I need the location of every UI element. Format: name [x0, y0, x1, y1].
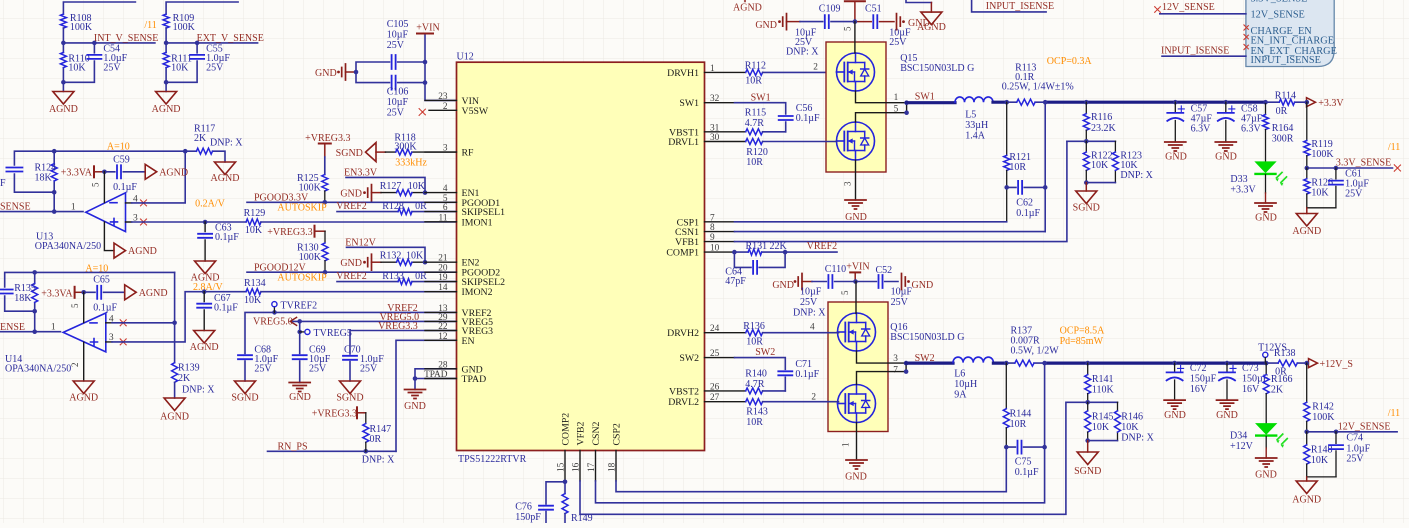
svg-text:110K: 110K [1092, 385, 1115, 396]
svg-text:R139: R139 [178, 363, 200, 374]
ground GND C57 [1165, 142, 1186, 151]
resistor R132 10K [381, 261, 425, 263]
resistor R108 100K [60, 14, 66, 28]
svg-text:+VREG3.3: +VREG3.3 [305, 133, 350, 144]
resistor R118 300K [385, 151, 456, 153]
power port +12V_S [1309, 359, 1318, 368]
resistor R113 0.1R sense [1017, 99, 1035, 105]
wire Q15 drain from +VIN [854, 22, 856, 53]
junction [61, 41, 66, 46]
svg-text:1.4A: 1.4A [965, 131, 986, 142]
Q16 low-side MOSFET [838, 385, 876, 423]
ground GND for TPAD [405, 390, 426, 399]
svg-text:SW1: SW1 [679, 98, 699, 109]
wire EXT_V_SENSE node [166, 28, 258, 91]
wire 12V_SENSE to sheet [1160, 13, 1246, 15]
svg-text:INPUT_ISENSE: INPUT_ISENSE [1251, 55, 1321, 66]
resistor R121 10R [1006, 102, 1008, 155]
svg-text:TVREG5: TVREG5 [314, 328, 352, 339]
svg-text:10K: 10K [1311, 455, 1329, 466]
junction [32, 270, 37, 275]
resistor R115 4.7R [746, 129, 763, 135]
wire 3.3V_SENSE [1307, 167, 1393, 169]
capacitor C68 1.0uF 25V [238, 355, 252, 359]
svg-text:25V: 25V [360, 364, 378, 375]
svg-text:10R: 10R [746, 157, 763, 168]
svg-text:R112: R112 [745, 61, 766, 72]
svg-text:R143: R143 [746, 407, 768, 418]
capacitor C73 150uF 16V [1226, 363, 1228, 400]
ground GND D33 [1255, 203, 1276, 212]
svg-text:AGND: AGND [1292, 226, 1321, 237]
svg-text:10K: 10K [1092, 422, 1110, 433]
svg-text:L5: L5 [965, 110, 976, 121]
wire SW2 bus thick [906, 362, 953, 365]
svg-text:1: 1 [710, 64, 715, 74]
svg-text:+12V_S: +12V_S [1320, 359, 1353, 370]
resistor R143 10R [746, 399, 763, 405]
ground GND C73 [1217, 400, 1238, 409]
capacitor C57 47uF 6.3V [1174, 102, 1176, 142]
inductor L6 10uH 9A [953, 357, 993, 363]
wire CSN2 long [596, 447, 1045, 503]
svg-text:SGND: SGND [336, 148, 363, 159]
svg-text:100K: 100K [173, 22, 196, 33]
wire C105/C106 rails [356, 34, 457, 101]
svg-text:R133: R133 [382, 271, 404, 282]
wire R122/R123 bottom rail [1086, 182, 1115, 184]
svg-text:10R: 10R [746, 417, 763, 428]
svg-text:21: 21 [438, 254, 448, 264]
wire CSP2 long [616, 447, 1006, 492]
svg-text:16: 16 [572, 462, 582, 472]
wire Q16 source to SW2 node [857, 351, 907, 385]
svg-text:DNP: X: DNP: X [1121, 433, 1154, 444]
svg-text:VREG3.3: VREG3.3 [378, 321, 418, 332]
capacitor C58 47uF 6.3V [1225, 102, 1227, 142]
svg-text:R134: R134 [244, 278, 266, 289]
wire Q15 source to SW1 node [856, 91, 907, 122]
svg-text:9A: 9A [954, 390, 967, 401]
svg-text:2K: 2K [194, 133, 207, 144]
svg-text:SGND: SGND [231, 393, 258, 404]
svg-text:AGND: AGND [733, 3, 762, 14]
svg-text:COMP1: COMP1 [666, 248, 699, 259]
svg-text:R128: R128 [382, 201, 404, 212]
wire CSN1 riser [1044, 102, 1046, 231]
svg-text:25: 25 [710, 349, 720, 359]
svg-text:+12V: +12V [1230, 441, 1254, 452]
svg-text:TVREF2: TVREF2 [281, 301, 318, 312]
resistor R140 4.7R [746, 388, 763, 394]
resistor R112 10R [746, 69, 763, 75]
svg-text:AGND: AGND [190, 342, 219, 353]
svg-text:10: 10 [710, 244, 720, 254]
svg-text:OCP=8.5A: OCP=8.5A [1060, 326, 1106, 337]
svg-text:2: 2 [813, 63, 818, 73]
testpoint TVREF2 [273, 307, 275, 313]
ground SGND for C70 [340, 381, 361, 394]
capacitor C62 0.1uF [1007, 186, 1045, 188]
testpoint TVREG5 [300, 331, 305, 333]
capacitor C54 1.0uF 25V [87, 55, 101, 59]
svg-text:3.3V_SENSE: 3.3V_SENSE [1336, 158, 1391, 169]
svg-text:INPUT_ISENSE: INPUT_ISENSE [986, 1, 1054, 12]
svg-text:10µH: 10µH [954, 379, 977, 390]
svg-text:C59: C59 [113, 155, 130, 166]
wire CSP1 [735, 221, 1007, 223]
svg-text:25V: 25V [1346, 454, 1364, 465]
svg-text:TPAD: TPAD [424, 370, 448, 380]
junction [52, 149, 57, 154]
svg-text:12V_SENSE: 12V_SENSE [1162, 2, 1215, 13]
wire VREG3 pin22 [350, 331, 457, 355]
svg-text:150µF: 150µF [1190, 374, 1217, 385]
wire VFB1 [735, 141, 1067, 241]
wire INPUT_ISENSE to sheet [1162, 55, 1246, 57]
wire U14 output SENSE [0, 331, 61, 333]
svg-text:R141: R141 [1092, 374, 1114, 385]
svg-text:0.1µF: 0.1µF [795, 369, 819, 380]
wire U14 plus input to IMON2 [112, 292, 246, 342]
svg-text:V5SW: V5SW [462, 106, 489, 117]
capacitor C52 10uF 25V [856, 281, 899, 283]
svg-text:0R: 0R [1276, 106, 1288, 117]
svg-text:AUTOSKIP: AUTOSKIP [277, 273, 327, 284]
svg-text:16V: 16V [1190, 384, 1208, 395]
svg-text:AGND: AGND [211, 173, 240, 184]
svg-text:R116: R116 [1091, 112, 1112, 123]
wire EN12V [347, 247, 426, 262]
wire VREG5 pin29 [293, 321, 457, 353]
svg-text:GND: GND [1216, 410, 1238, 421]
svg-text:+VREG3.3: +VREG3.3 [267, 227, 312, 238]
ground GND C72 [1164, 400, 1185, 409]
svg-text:19: 19 [438, 273, 448, 283]
svg-text:AGND: AGND [139, 288, 168, 299]
svg-text:AGND: AGND [1292, 495, 1321, 506]
resistor R164 300R [1265, 102, 1267, 114]
ground AGND 12V sense [1306, 477, 1308, 481]
svg-text:7: 7 [893, 366, 898, 376]
wire 12V_SENSE [1307, 431, 1397, 433]
no-ERC mark V5SW pin [419, 109, 426, 116]
svg-text:GND: GND [1215, 152, 1237, 163]
svg-text:2K: 2K [178, 373, 191, 384]
ground AGND 3.3V sense [1306, 208, 1308, 214]
svg-text:SENSE: SENSE [0, 202, 31, 213]
svg-text:GND: GND [912, 280, 934, 291]
capacitor C51 10uF 25V [855, 21, 894, 23]
svg-text:10µF: 10µF [387, 30, 409, 41]
svg-text:A=10: A=10 [85, 264, 108, 275]
svg-text:0.5W, 1/2W: 0.5W, 1/2W [1011, 346, 1060, 357]
svg-text:R140: R140 [745, 369, 767, 380]
wire U14 minus input node [112, 272, 175, 362]
wire INPUT_ISENSE top center [972, 0, 1047, 12]
svg-text:4: 4 [443, 184, 448, 194]
resistor R109 100K [163, 14, 169, 28]
svg-text:25V: 25V [309, 364, 327, 375]
svg-text:25V: 25V [254, 364, 272, 375]
svg-text:C51: C51 [865, 4, 882, 15]
wire EN3.3V [346, 177, 425, 192]
svg-text:+3.3VA: +3.3VA [61, 168, 93, 179]
wire INT_V_SENSE node [63, 28, 154, 91]
svg-text:GND: GND [1255, 470, 1277, 481]
ground GND for C69 [289, 383, 310, 392]
capacitor U14 feedback (cropped) [0, 290, 13, 294]
svg-text:1: 1 [841, 443, 851, 448]
svg-text:R144: R144 [1010, 409, 1032, 420]
transistor Q15 box [826, 42, 886, 172]
resistor R147 0R DNP [365, 413, 367, 424]
svg-text:AGND: AGND [152, 104, 181, 115]
resistor R148 10K [1306, 432, 1308, 445]
svg-text:GND: GND [315, 68, 337, 79]
wire top feed INT_V_SENSE [63, 2, 135, 14]
svg-text:25V: 25V [800, 297, 818, 308]
svg-text:C105: C105 [387, 19, 409, 30]
wire CSN1 [735, 231, 1046, 233]
svg-text:3: 3 [443, 144, 448, 154]
svg-text:AGND: AGND [69, 393, 98, 404]
wire IMON2 [261, 291, 457, 293]
capacitor C106 10uF 25V [392, 76, 396, 90]
resistor R110 10K [60, 52, 66, 67]
svg-text:12: 12 [438, 332, 448, 342]
op-amp U14 OPA340NA/250 [63, 313, 106, 352]
svg-text:10K: 10K [408, 181, 426, 192]
svg-text:150pF: 150pF [515, 512, 541, 523]
U12 left pin stubs [425, 100, 457, 378]
svg-text:/11: /11 [144, 20, 156, 31]
svg-text:BSC150N03LD G: BSC150N03LD G [900, 63, 974, 74]
svg-text:/11: /11 [1388, 142, 1400, 153]
no-ERC mark 3.3V_SENSE [1394, 165, 1400, 171]
svg-text:TPS51222RTVR: TPS51222RTVR [458, 454, 527, 465]
svg-text:DNP: X: DNP: X [1120, 170, 1153, 181]
power +VIN phase1 [845, 0, 865, 2]
svg-text:10K: 10K [1121, 422, 1139, 433]
resistor R166 2K [1265, 363, 1267, 375]
svg-text:2: 2 [443, 102, 448, 112]
svg-text:SGND: SGND [1073, 203, 1100, 214]
svg-text:100K: 100K [1312, 412, 1335, 423]
svg-text:R114: R114 [1275, 91, 1296, 102]
wire Q15 low source to GND [855, 160, 857, 200]
wire VREF2 pin13 [245, 312, 457, 353]
wire GND TPAD pins [415, 369, 457, 390]
capacitor C56 0.1uF [779, 116, 793, 120]
svg-text:DNP: X: DNP: X [793, 308, 826, 319]
svg-text:RF: RF [462, 148, 475, 159]
svg-text:U12: U12 [457, 52, 474, 63]
resistor R119 100K [1306, 102, 1308, 140]
svg-text:+VIN: +VIN [846, 262, 869, 273]
svg-text:AGND: AGND [128, 246, 157, 257]
svg-text:3.3V_SENSE: 3.3V_SENSE [1251, 0, 1308, 5]
ground AGND for C65 [125, 285, 137, 300]
svg-text:10µF: 10µF [800, 287, 822, 298]
svg-text:+3.3VA: +3.3VA [41, 289, 73, 300]
resistor R144 10R [1005, 363, 1007, 409]
svg-text:C65: C65 [93, 275, 110, 286]
svg-text:R138: R138 [1274, 348, 1296, 359]
wire U13 supply pin 5 [103, 172, 105, 203]
svg-text:Pd=85mW: Pd=85mW [1060, 336, 1104, 347]
resistor R135 18K [32, 283, 38, 302]
svg-text:C62: C62 [1016, 198, 1033, 209]
svg-text:C70: C70 [344, 345, 361, 356]
resistor R127 10K [381, 192, 425, 194]
svg-text:10R: 10R [1009, 162, 1026, 173]
no-ERC marks sheet entries [1244, 25, 1249, 30]
svg-text:R142: R142 [1312, 402, 1334, 413]
svg-text:0.2A/V: 0.2A/V [195, 199, 226, 210]
resistor R120 10R [746, 139, 763, 145]
svg-text:SW2: SW2 [755, 347, 775, 358]
resistor R130 100K [324, 231, 326, 243]
Q16 high-side MOSFET [838, 313, 876, 351]
svg-text:15: 15 [557, 462, 567, 472]
svg-text:DRVH1: DRVH1 [667, 68, 699, 79]
junction [354, 70, 359, 75]
svg-text:25V: 25V [387, 108, 405, 119]
svg-text:RN_PS: RN_PS [278, 442, 308, 453]
wire R145/R146 top rail [1088, 401, 1118, 403]
ground GND bar right of C52 [902, 274, 906, 290]
ground AGND [53, 92, 74, 105]
svg-text:GND: GND [404, 401, 426, 412]
svg-text:/11: /11 [1388, 408, 1400, 419]
capacitor C74 1.0uF 25V [1335, 432, 1337, 477]
svg-text:IMON1: IMON1 [462, 217, 493, 228]
svg-text:10K: 10K [68, 63, 86, 74]
power port +3.3V [1307, 98, 1316, 107]
wire PGOOD1 / net label PGOOD3.3V [247, 201, 457, 203]
svg-text:VREF2: VREF2 [336, 271, 367, 282]
svg-text:DNP: X: DNP: X [786, 47, 819, 58]
svg-text:C73: C73 [1242, 363, 1259, 374]
svg-text:IMON2: IMON2 [462, 287, 493, 298]
svg-text:L6: L6 [954, 369, 965, 380]
wire Q16 low source to GND [856, 423, 858, 461]
svg-text:3: 3 [843, 181, 853, 186]
wire U13 feedback top rail [14, 151, 185, 211]
svg-text:D34: D34 [1230, 431, 1247, 442]
svg-text:33µH: 33µH [965, 120, 988, 131]
wire VFB2 long [580, 402, 1088, 514]
svg-text:GND: GND [755, 20, 777, 31]
svg-text:0.1µF: 0.1µF [215, 232, 239, 243]
svg-text:OPA340NA/250: OPA340NA/250 [35, 241, 101, 252]
svg-text:AGND: AGND [159, 167, 188, 178]
svg-text:D33: D33 [1230, 174, 1247, 185]
svg-text:EN: EN [462, 336, 475, 347]
svg-text:5: 5 [70, 303, 80, 308]
svg-text:10K: 10K [245, 225, 263, 236]
svg-text:0.1µF: 0.1µF [796, 113, 820, 124]
wire RN_PS [268, 450, 397, 452]
svg-text:10K: 10K [1091, 160, 1109, 171]
svg-text:5: 5 [843, 26, 853, 31]
svg-text:0.1µF: 0.1µF [1015, 467, 1039, 478]
svg-text:SW1: SW1 [915, 92, 935, 103]
resistor R111 10K [163, 52, 169, 67]
svg-text:F: F [0, 178, 6, 189]
svg-text:30: 30 [710, 133, 720, 143]
capacitor C69 10uF 25V [293, 355, 307, 359]
resistor R117 2K DNP [185, 151, 225, 162]
resistor R126 10K [1306, 168, 1308, 179]
svg-text:CSP2: CSP2 [612, 423, 623, 445]
svg-text:VREF2: VREF2 [807, 241, 838, 252]
svg-text:SGND: SGND [336, 393, 363, 404]
svg-text:10K: 10K [406, 251, 424, 262]
svg-text:9: 9 [710, 233, 715, 243]
resistor R129 10K [246, 219, 261, 225]
capacitor C71 0.1uF [778, 371, 792, 375]
svg-text:VREF2: VREF2 [336, 201, 367, 212]
svg-text:300R: 300R [1272, 134, 1294, 145]
capacitor C72 150uF 16V [1174, 363, 1176, 400]
wire output SENSE [0, 211, 83, 213]
svg-text:DNP: X: DNP: X [362, 455, 395, 466]
svg-text:10K: 10K [171, 63, 189, 74]
wire COMP1 node [735, 251, 838, 253]
svg-text:+VREG3.3: +VREG3.3 [312, 409, 357, 420]
resistor R123 10K DNP [1114, 141, 1116, 182]
svg-text:R127: R127 [380, 181, 402, 192]
svg-text:18: 18 [608, 462, 618, 472]
svg-text:C52: C52 [876, 265, 893, 276]
svg-text:25V: 25V [891, 297, 909, 308]
svg-text:27: 27 [710, 393, 720, 403]
svg-text:25V: 25V [103, 63, 121, 74]
svg-text:GND: GND [772, 280, 794, 291]
capacitor C76 150pF [539, 506, 553, 510]
resistor R131 22K [748, 249, 762, 255]
svg-text:32: 32 [710, 94, 720, 104]
svg-text:OCP=0.3A: OCP=0.3A [1047, 56, 1093, 67]
wire SW2 bus to R137 [993, 362, 1006, 365]
svg-text:A=10: A=10 [107, 142, 130, 153]
svg-text:100K: 100K [1311, 149, 1334, 160]
no-ERC marks U13 inputs [141, 200, 147, 206]
svg-text:BSC150N03LD G: BSC150N03LD G [890, 332, 964, 343]
svg-text:GND: GND [340, 258, 362, 269]
resistor R114 0R [1266, 101, 1306, 103]
capacitor C110 10uF 25V DNP [812, 281, 856, 283]
svg-text:12V_SENSE: 12V_SENSE [1338, 422, 1391, 433]
capacitor C61 1.0uF 25V [1335, 168, 1337, 208]
svg-text:VFB1: VFB1 [675, 237, 699, 248]
resistor R146 10K DNP [1117, 402, 1119, 440]
svg-text:6: 6 [443, 203, 448, 213]
ground SGND for C68 [235, 381, 256, 394]
svg-text:R132: R132 [380, 251, 402, 262]
svg-text:DNP: X: DNP: X [210, 138, 243, 149]
capacitor C65 0.1uF [84, 291, 125, 293]
ground AGND top-left remnant [744, 0, 746, 2]
ground AGND for C59 [145, 164, 157, 179]
wire +12V bus thick [1045, 362, 1267, 365]
svg-text:10K: 10K [244, 295, 262, 306]
svg-text:R136: R136 [743, 321, 765, 332]
svg-text:DRVL2: DRVL2 [668, 397, 699, 408]
op-amp U13 OPA340NA/250 [86, 193, 126, 232]
